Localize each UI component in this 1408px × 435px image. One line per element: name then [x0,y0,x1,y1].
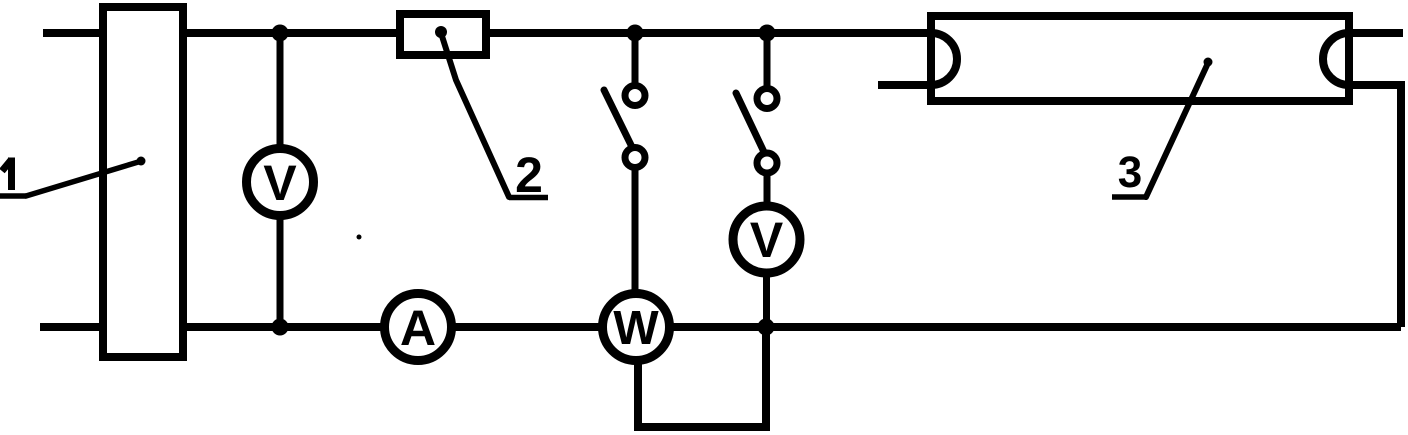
resistor/starter box 2 [400,14,486,55]
label 1 [2,158,12,191]
wire: top-left stub to ballast box [43,29,103,37]
ammeter A1 [385,294,452,361]
fluorescent lamp 3 tube body [931,16,1349,101]
wattmeter W1 voltage-coil loop [638,327,766,427]
voltmeter V2 [733,206,800,273]
leader dot for label 3 [1204,58,1213,67]
wire: node B down to switch S1 [632,33,639,86]
node C (junction) [759,25,776,42]
lamp right electrode (semicircle) [1323,33,1349,85]
node E (junction, bottom wire) [758,319,775,336]
lamp left bottom pin stub [878,81,931,89]
voltmeter V1 [247,149,314,216]
leader line for label 3 [1146,63,1208,197]
wire: node C to lamp left pin [767,29,931,37]
leader line for label 1 [26,162,140,197]
wire: switch S1 to wattmeter W1 [632,168,639,294]
label 2 [517,157,541,192]
switch S1 blade [604,90,632,147]
wire: node C down to switch S2 [764,33,771,89]
wire: voltmeter V2 to node E [763,273,770,327]
wire: voltmeter V1 upper branch [277,33,284,149]
wire: box 2 to node B [486,29,639,37]
node A (junction) [272,25,289,42]
label 3 underline [1112,194,1147,200]
label 1 underline [0,193,26,199]
wire: switch S2 to voltmeter V2 [764,173,771,207]
wattmeter W1 [603,294,670,361]
node B (junction) [627,25,644,42]
node D (junction, bottom wire) [272,319,289,336]
wire: box 1 to node A (top) [183,29,284,37]
wire: node A to resistor box 2 [280,29,400,37]
wire: lamp right bottom pin to bottom wire [1349,85,1401,327]
label 3 [1119,156,1141,187]
leader dot for label 2 [435,26,447,38]
switch S1 lower contact [625,148,645,168]
leader line for label 2 [441,33,509,197]
wire: ammeter A1 to wattmeter W1 [452,323,603,331]
switch S1 upper contact [625,86,645,106]
switch S2 lower contact [757,153,777,173]
wire: wattmeter W1 to node E [670,323,767,331]
label 2 underline [509,195,548,201]
lamp right top pin stub [1349,29,1403,37]
wire: voltmeter V1 lower branch [277,217,284,328]
ballast/transformer box 1 [103,7,183,357]
wire: node B to node C [635,29,771,37]
wire: box 1 to ammeter A1 [183,323,385,331]
wire: node E to bottom-right corner [766,323,1401,331]
switch S2 upper contact [757,89,777,109]
switch S2 blade [736,93,764,152]
leader dot for label 1 [137,157,146,166]
wire: bottom-left stub to box 1 [40,323,103,331]
lamp left electrode (semicircle) [931,33,957,85]
